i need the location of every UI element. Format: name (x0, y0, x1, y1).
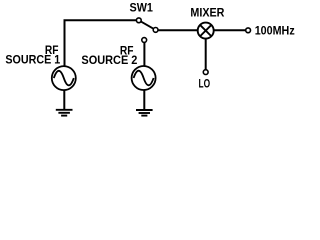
wire from RF SOURCE 1 up and across to SW1 throw 1 (65, 20, 139, 66)
svg-text:SW1: SW1 (130, 1, 154, 15)
terminal 100MHz output (246, 28, 251, 33)
switch SW1 pole contact (153, 28, 158, 33)
wire mixer output to 100MHz terminal (206, 29, 248, 31)
wire RF SOURCE 1 to ground (63, 90, 65, 110)
wire RF SOURCE 2 to ground (143, 90, 145, 110)
wire SW1 pole to mixer input (156, 29, 206, 31)
svg-text:MIXER: MIXER (190, 6, 224, 20)
switch SW1 throw contact 1 (136, 18, 141, 23)
wire RF SOURCE 2 up to SW1 throw 2 (143, 40, 145, 66)
svg-text:100MHz: 100MHz (255, 24, 295, 38)
AC source circle V1 (RF SOURCE 1) (52, 66, 76, 90)
svg-text:LO: LO (199, 77, 211, 91)
wire mixer to LO terminal (205, 30, 207, 72)
wire switch lever SW1 (139, 20, 156, 30)
mixer U1 circle (198, 23, 214, 39)
switch SW1 throw contact 2 (142, 38, 147, 43)
terminal LO input (203, 70, 208, 75)
ground for RF SOURCE 2 (136, 110, 153, 116)
svg-text:SOURCE 1: SOURCE 1 (5, 52, 60, 66)
ground for RF SOURCE 1 (56, 110, 73, 116)
svg-text:SOURCE 2: SOURCE 2 (81, 53, 137, 67)
AC source circle V2 (RF SOURCE 2) (132, 66, 156, 90)
